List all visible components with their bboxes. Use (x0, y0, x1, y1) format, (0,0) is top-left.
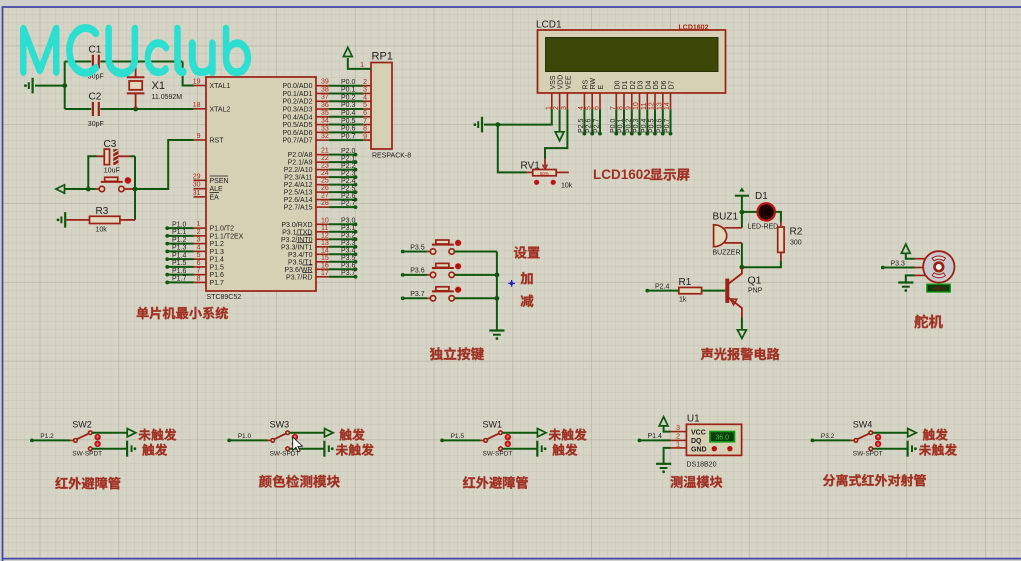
pin P3.0 (316, 223, 329, 225)
net label P0.6 (662, 109, 664, 133)
svg-text:P0.0: P0.0 (341, 79, 356, 86)
svg-text:3: 3 (676, 425, 680, 432)
label (914, 315, 943, 329)
svg-text:RS: RS (582, 79, 589, 89)
node P2.0 (329, 154, 356, 156)
svg-text:STC89C52: STC89C52 (207, 294, 242, 301)
wire VEE to RV1 wiper (545, 109, 567, 158)
svg-text:P2.7: P2.7 (594, 118, 601, 133)
wire (442, 439, 480, 441)
pin 1 wire (348, 58, 371, 69)
wire (776, 212, 781, 222)
power arrow (343, 47, 352, 56)
svg-text:P2.4/A12: P2.4/A12 (284, 182, 313, 189)
svg-text:D4: D4 (645, 80, 652, 89)
node P3.3 (329, 246, 356, 248)
svg-text:13: 13 (656, 102, 663, 110)
svg-text:R1: R1 (679, 277, 692, 288)
wire (873, 432, 908, 434)
svg-text:P0.3: P0.3 (341, 102, 356, 109)
node P1.2 (30, 439, 34, 443)
pin P2.4 (316, 184, 329, 186)
LED D1 (758, 203, 775, 220)
label (521, 295, 534, 308)
svg-text:D5: D5 (653, 80, 660, 89)
svg-text:24: 24 (321, 170, 329, 177)
svg-text:D7: D7 (669, 80, 676, 89)
node P1.4 (167, 258, 193, 260)
pin XTAL1 (194, 85, 207, 87)
wire (647, 290, 679, 292)
node P3.3 (881, 266, 885, 270)
svg-text:11.0592M: 11.0592M (152, 94, 183, 101)
svg-text:P1.3: P1.3 (172, 245, 187, 252)
svg-text:1: 1 (676, 441, 680, 448)
svg-text:LCD1602: LCD1602 (679, 25, 709, 32)
svg-text:D0: D0 (614, 80, 621, 89)
wire (92, 448, 127, 450)
svg-text:P1.0: P1.0 (238, 433, 252, 440)
svg-text:10k: 10k (561, 183, 573, 190)
node P1.2 (167, 243, 193, 245)
svg-text:XTAL1: XTAL1 (210, 83, 231, 90)
wire (66, 219, 89, 221)
svg-text:28: 28 (321, 200, 329, 207)
svg-text:P2.7/A15: P2.7/A15 (284, 205, 313, 212)
svg-text:21: 21 (321, 148, 329, 155)
crystal X1 (135, 62, 137, 78)
wire (502, 432, 537, 434)
switch SW4 SW-SPDT (851, 439, 855, 441)
svg-text:RP1: RP1 (372, 51, 393, 63)
power symbol (735, 195, 749, 197)
wire (65, 188, 96, 190)
svg-text:P2.6: P2.6 (341, 193, 356, 200)
svg-text:14: 14 (664, 102, 671, 110)
node P3.2 (329, 238, 356, 240)
svg-text:P0.4: P0.4 (641, 118, 648, 133)
svg-text:P2.2: P2.2 (341, 163, 356, 170)
pin P0.2 (316, 100, 329, 102)
power arrow VDD (559, 109, 561, 132)
capacitor C3 (104, 149, 109, 165)
wire (229, 439, 267, 441)
ground (323, 441, 325, 457)
power arrow (901, 244, 910, 253)
label (823, 474, 926, 486)
svg-text:50%: 50% (540, 171, 549, 176)
node P1.7 (167, 281, 193, 283)
svg-text:P0.3: P0.3 (633, 118, 640, 133)
svg-text:P1.5: P1.5 (451, 433, 465, 440)
label (670, 476, 722, 488)
wire (915, 274, 927, 276)
svg-text:7: 7 (363, 118, 367, 125)
svg-text:P2.5: P2.5 (341, 185, 356, 192)
svg-text:R2: R2 (790, 227, 803, 238)
svg-text:10k: 10k (96, 227, 108, 234)
wire (906, 253, 915, 258)
svg-text:P1.1/T2EX: P1.1/T2EX (210, 233, 244, 240)
node P3.2 (811, 439, 815, 443)
svg-text:2: 2 (363, 79, 367, 86)
svg-text:P1.0/T2: P1.0/T2 (210, 226, 235, 233)
node P3.0 (329, 223, 356, 225)
svg-text:SW2: SW2 (72, 420, 92, 430)
svg-text:32: 32 (321, 133, 329, 140)
pin P3.4 (316, 253, 329, 255)
svg-text:P2.6: P2.6 (586, 118, 593, 133)
wire net P0.3 (329, 108, 363, 110)
svg-text:DQ: DQ (691, 438, 702, 445)
svg-text:P2.3/A11: P2.3/A11 (284, 175, 312, 182)
power arrow (325, 429, 334, 437)
svg-text:C1: C1 (89, 45, 102, 56)
label (549, 428, 587, 440)
net label P0.5 (654, 109, 656, 133)
svg-text:18: 18 (193, 102, 201, 109)
RV1 adjust buttons (534, 180, 539, 185)
servo motor (923, 251, 954, 282)
node P2.3 (329, 176, 356, 178)
label (701, 348, 780, 360)
wire (64, 62, 66, 110)
net label P0.4 (646, 109, 648, 133)
svg-text:P3.0: P3.0 (341, 218, 356, 225)
wire (183, 62, 194, 86)
svg-text:29: 29 (193, 173, 201, 180)
pin P2.3 (316, 176, 329, 178)
svg-text:19: 19 (193, 79, 201, 86)
wire (664, 448, 671, 463)
wire (454, 251, 497, 253)
node junction (86, 187, 91, 192)
svg-text:P0.5: P0.5 (649, 118, 656, 133)
svg-text:P3.3: P3.3 (341, 240, 356, 247)
transistor Q1 PNP (727, 268, 742, 318)
pin P0.7 (316, 139, 329, 141)
svg-text:26: 26 (321, 185, 329, 192)
label (137, 307, 228, 320)
svg-text:9: 9 (197, 133, 201, 140)
svg-text:PNP: PNP (748, 288, 763, 295)
label (923, 428, 948, 440)
svg-text:36.0: 36.0 (715, 435, 729, 442)
svg-text:37: 37 (321, 94, 329, 101)
svg-text:P2.0/A8: P2.0/A8 (288, 152, 313, 159)
node P3.6 (401, 273, 405, 277)
pin ALE (194, 188, 207, 190)
resistor pack RP1 (371, 63, 392, 150)
label (463, 476, 528, 489)
svg-text:R3: R3 (96, 206, 109, 217)
microcontroller U STC89C52 (206, 77, 316, 291)
resistor R3 (90, 216, 120, 223)
pin P2.1 (316, 161, 329, 163)
svg-text:6: 6 (197, 260, 201, 267)
node P3.6 (329, 268, 356, 270)
wire (135, 140, 194, 189)
svg-text:6: 6 (363, 110, 367, 117)
svg-text:SW1: SW1 (483, 420, 503, 430)
svg-text:35: 35 (321, 110, 329, 117)
pin P0.5 (316, 124, 329, 126)
svg-text:P0.5/AD5: P0.5/AD5 (283, 122, 313, 129)
reset button (99, 177, 124, 191)
wire net P0.1 (329, 92, 363, 94)
pin P2.5 (316, 191, 329, 193)
svg-text:1: 1 (197, 221, 201, 228)
svg-text:P3.3/INT1: P3.3/INT1 (281, 244, 313, 251)
svg-text:RST: RST (210, 138, 225, 145)
svg-text:4: 4 (197, 244, 201, 251)
label (55, 477, 120, 490)
svg-text:11: 11 (641, 103, 648, 110)
wire net P0.7 (329, 139, 363, 141)
svg-text:P3.7: P3.7 (410, 291, 425, 298)
svg-text:LED-RED: LED-RED (748, 224, 779, 231)
node P2.4 (329, 184, 356, 186)
svg-text:17: 17 (321, 270, 329, 277)
node P2.4 (645, 289, 649, 293)
wire (741, 212, 743, 228)
pin EA (194, 196, 207, 198)
pin P1.4 (194, 258, 207, 260)
switch SW2 SW-SPDT (70, 439, 74, 441)
svg-text:P1.2: P1.2 (210, 241, 225, 248)
wire (65, 108, 92, 110)
svg-text:P0.7: P0.7 (341, 133, 356, 140)
pin P0.0 (316, 85, 329, 87)
wire (741, 318, 743, 330)
resistor R1 (679, 287, 702, 293)
node P1.4 (638, 439, 642, 443)
svg-text:39: 39 (321, 79, 329, 86)
wire (873, 448, 908, 450)
label (138, 428, 176, 440)
svg-text:P0.3/AD3: P0.3/AD3 (283, 107, 313, 114)
buzzer BUZ1 (714, 225, 727, 247)
svg-text:X1: X1 (152, 80, 165, 92)
node P1.1 (167, 235, 193, 237)
svg-text:15: 15 (321, 255, 329, 262)
svg-text:P2.6/A14: P2.6/A14 (284, 197, 313, 204)
wire (120, 219, 135, 221)
svg-text:P3.6: P3.6 (410, 268, 425, 275)
node junction (133, 187, 138, 192)
svg-text:8: 8 (197, 275, 201, 282)
svg-text:P1.4: P1.4 (172, 252, 187, 259)
svg-text:D1: D1 (755, 191, 768, 202)
node junction (495, 122, 500, 127)
pin P1.5 (194, 266, 207, 268)
label (430, 347, 484, 360)
svg-text:14: 14 (321, 247, 329, 254)
svg-text:ALE: ALE (210, 186, 224, 193)
wire net P0.6 (329, 131, 363, 133)
svg-text:SW-SPDT: SW-SPDT (270, 451, 300, 458)
node P3.5 (401, 250, 405, 254)
pin P2.2 (316, 169, 329, 171)
pin P0.1 (316, 92, 329, 94)
wire (664, 426, 671, 432)
svg-text:VCC: VCC (691, 430, 706, 437)
svg-text:BUZZER: BUZZER (713, 250, 741, 257)
svg-text:VEE: VEE (565, 75, 572, 89)
svg-text:P0.6: P0.6 (341, 126, 356, 133)
net label P0.2 (631, 109, 633, 133)
wire (97, 155, 105, 157)
pin RST (194, 139, 207, 141)
label (919, 444, 957, 456)
svg-text:10: 10 (633, 102, 640, 110)
ground (481, 117, 483, 133)
svg-text:P1.5: P1.5 (172, 260, 187, 267)
wire (92, 432, 127, 434)
node junction (495, 273, 500, 278)
svg-text:P3.4/T0: P3.4/T0 (288, 252, 313, 259)
svg-text:34: 34 (321, 118, 329, 125)
wire (454, 297, 497, 299)
wire net P0.5 (329, 124, 363, 126)
potentiometer RV1 (544, 159, 546, 167)
node P3.5 (329, 261, 356, 263)
svg-text:D2: D2 (630, 80, 637, 89)
wire (403, 274, 428, 276)
node P2.7 (329, 206, 356, 208)
svg-text:BUZ1: BUZ1 (713, 212, 739, 223)
svg-text:23: 23 (321, 163, 329, 170)
power arrow (127, 429, 136, 437)
wire (741, 196, 743, 212)
svg-text:RW: RW (590, 78, 597, 90)
wire (496, 252, 498, 331)
svg-text:LCD1602: LCD1602 (593, 167, 651, 182)
net label P2.5 (583, 109, 585, 133)
pin P0.4 (316, 116, 329, 118)
svg-text:1: 1 (360, 62, 364, 69)
svg-text:P0.2: P0.2 (625, 118, 632, 133)
node junction (62, 83, 67, 88)
svg-text:3: 3 (363, 87, 367, 94)
ground (536, 441, 538, 457)
mouse cursor (293, 437, 303, 452)
node P1.0 (227, 439, 231, 443)
svg-text:2: 2 (197, 229, 201, 236)
svg-text:13: 13 (321, 240, 329, 247)
wire (812, 439, 850, 441)
wire (742, 261, 781, 267)
node P1.0 (167, 227, 193, 229)
pin XTAL2 (194, 108, 207, 110)
node P2.5 (329, 191, 356, 193)
svg-text:P3.0/RXD: P3.0/RXD (281, 222, 312, 229)
svg-text:P2.2/A10: P2.2/A10 (284, 167, 313, 174)
svg-text:P3.3: P3.3 (891, 260, 906, 267)
svg-text:P1.4: P1.4 (210, 257, 225, 264)
pin P0.6 (316, 131, 329, 133)
wire (498, 125, 527, 173)
node P3.1 (329, 231, 356, 233)
svg-text:10uF: 10uF (104, 168, 120, 175)
svg-text:P3.7/RD: P3.7/RD (286, 274, 312, 281)
svg-text:D3: D3 (638, 80, 645, 89)
svg-text:P3.5: P3.5 (341, 255, 356, 262)
svg-text:P2.5/A13: P2.5/A13 (284, 190, 313, 197)
ground arrow (737, 330, 746, 339)
svg-text:P0.6: P0.6 (656, 118, 663, 133)
LCD1 display LCD1602 (538, 30, 726, 93)
svg-text:P0.0: P0.0 (610, 118, 617, 133)
button P3.7 (427, 297, 433, 299)
svg-text:SW3: SW3 (270, 420, 290, 430)
svg-text:P0.4/AD4: P0.4/AD4 (283, 114, 313, 121)
svg-text:300: 300 (790, 240, 802, 247)
switch SW1 SW-SPDT (480, 439, 484, 441)
svg-text:SW-SPDT: SW-SPDT (72, 451, 102, 458)
node P3.7 (329, 276, 356, 278)
svg-text:RESPACK-8: RESPACK-8 (372, 153, 411, 160)
svg-text:16: 16 (321, 262, 329, 269)
wire (35, 85, 65, 87)
wire (32, 439, 70, 441)
ground (906, 441, 908, 457)
node junction (740, 210, 745, 215)
wire (134, 156, 136, 220)
pin P0.3 (316, 108, 329, 110)
pin P3.1 (316, 231, 329, 233)
svg-text:P1.0: P1.0 (172, 221, 187, 228)
svg-text:P1.6: P1.6 (172, 268, 187, 275)
svg-text:VSS: VSS (550, 75, 557, 89)
node P3.7 (401, 296, 405, 300)
svg-text:5: 5 (363, 102, 367, 109)
svg-text:SW-SPDT: SW-SPDT (853, 451, 883, 458)
label (521, 272, 533, 284)
pin P1.1 (194, 235, 207, 237)
svg-text:D6: D6 (661, 80, 668, 89)
node P2.1 (329, 161, 356, 163)
wire (118, 155, 130, 157)
svg-text:P0.1/AD1: P0.1/AD1 (283, 91, 313, 98)
wire (742, 211, 757, 213)
wire net P0.4 (329, 116, 363, 118)
wire (124, 188, 135, 190)
svg-text:12: 12 (649, 102, 656, 110)
svg-text:P1.5: P1.5 (210, 264, 225, 271)
node junction (495, 296, 500, 301)
svg-text:Q1: Q1 (748, 275, 762, 287)
wire (883, 267, 915, 269)
wire (100, 61, 182, 63)
svg-text:P0.1: P0.1 (618, 118, 625, 133)
svg-text:P2.1/A9: P2.1/A9 (288, 160, 313, 167)
svg-text:P0.2/AD2: P0.2/AD2 (283, 99, 313, 106)
wire net P0.2 (329, 100, 363, 102)
net label P0.0 (615, 109, 617, 133)
svg-text:P0.4: P0.4 (341, 110, 356, 117)
capacitor C1 (93, 55, 99, 69)
svg-text:10: 10 (321, 217, 329, 224)
svg-text:P2.3: P2.3 (341, 170, 356, 177)
svg-text:P2.5: P2.5 (578, 118, 585, 133)
temperature sensor U1 DS18B20 (686, 424, 741, 455)
svg-text:P1.6: P1.6 (210, 272, 225, 279)
svg-text:+90.0: +90.0 (932, 286, 946, 292)
svg-text:4: 4 (363, 94, 367, 101)
wire (403, 251, 428, 253)
svg-text:P0.7: P0.7 (664, 118, 671, 133)
